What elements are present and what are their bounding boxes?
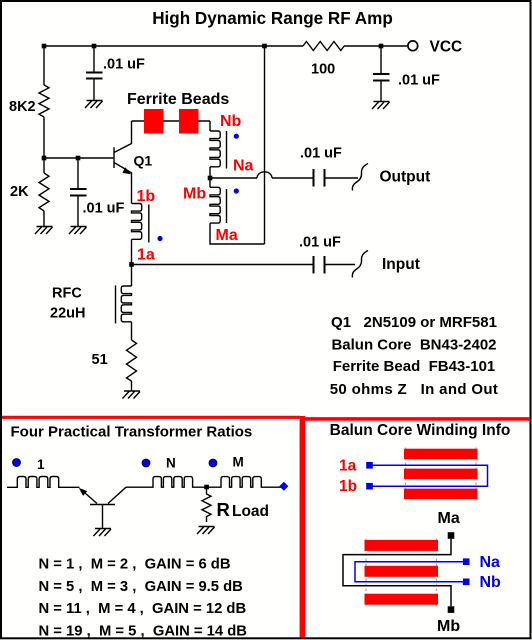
capacitor input plates	[314, 256, 325, 274]
svg-text:8K2: 8K2	[9, 99, 36, 115]
port dot N	[142, 459, 150, 467]
bottom core bar 3	[365, 594, 439, 605]
red panel top border left	[2, 416, 300, 419]
svg-text:100: 100	[311, 62, 335, 78]
svg-text:2K: 2K	[10, 184, 29, 200]
svg-text:.01 uF: .01 uF	[103, 57, 145, 73]
winding Mb/Ma coil	[209, 178, 211, 187]
svg-text:Nb: Nb	[480, 574, 502, 591]
ferrite bead 2	[179, 109, 199, 134]
winding M core bar	[226, 189, 228, 223]
wire input node to RFC	[131, 265, 133, 287]
bottom core bar 2	[365, 566, 439, 577]
wire winding M bottom	[210, 223, 265, 244]
svg-text:Mb: Mb	[437, 618, 460, 635]
inductor RFC coil	[121, 286, 131, 322]
svg-text:Q1 2N5109 or MRF581: Q1 2N5109 or MRF581	[331, 314, 497, 331]
wire input line	[132, 264, 313, 266]
phasing dot M	[234, 188, 239, 193]
svg-text:Balun Core BN43-2402: Balun Core BN43-2402	[331, 337, 496, 354]
svg-text:Balun Core Winding Info: Balun Core Winding Info	[330, 422, 511, 439]
transistor Q emitter wire	[81, 490, 97, 504]
svg-text:VCC: VCC	[430, 39, 463, 56]
node junction C2 top	[76, 156, 81, 161]
phasing dot N	[234, 134, 239, 139]
wire output right	[272, 177, 313, 179]
svg-text:Q1: Q1	[134, 153, 153, 169]
VCC terminal	[408, 41, 418, 51]
ground under C2	[69, 227, 87, 235]
red panel divider	[300, 416, 306, 638]
ground under R load	[197, 527, 215, 535]
terminal square 1b	[366, 483, 373, 490]
red panel top border right	[300, 417, 530, 421]
output jack	[352, 164, 368, 191]
wire top supply rail	[44, 45, 407, 47]
capacitor C3 .01uF lead	[380, 46, 382, 102]
svg-text:.01 uF: .01 uF	[299, 235, 341, 251]
ground under 2K	[35, 227, 53, 235]
node junction top-left	[42, 44, 47, 49]
top core bar 3	[404, 489, 478, 500]
transistor Q1 collector	[114, 121, 132, 153]
svg-text:.01 uF: .01 uF	[83, 201, 125, 217]
svg-text:51: 51	[92, 352, 108, 368]
transistor Q emitter arrow	[79, 488, 88, 496]
terminal square 1a	[366, 462, 373, 469]
RFC core bar	[115, 286, 117, 324]
svg-text:Four Practical Transformer Rat: Four Practical Transformer Ratios	[11, 424, 253, 441]
capacitor C1 plates	[86, 73, 103, 79]
svg-text:Na: Na	[233, 158, 254, 175]
svg-text:Ma: Ma	[438, 510, 460, 527]
svg-text:.01 uF: .01 uF	[300, 146, 342, 162]
svg-text:50 ohms Z In and Out: 50 ohms Z In and Out	[330, 381, 499, 398]
wire input cap to jack	[326, 264, 356, 266]
wire 2K to ground	[43, 211, 45, 227]
svg-text:Ferrite Bead FB43-101: Ferrite Bead FB43-101	[333, 358, 496, 375]
wire bead to winding N top	[209, 121, 211, 131]
svg-text:R: R	[217, 499, 230, 520]
inductor 1 coil	[7, 477, 80, 488]
node junction C3 top	[379, 44, 384, 49]
resistor 2K	[39, 173, 49, 211]
svg-text:N = 19 , M = 5 , GAIN = 14 d: N = 19 , M = 5 , GAIN = 14 dB	[39, 623, 248, 639]
terminal square Nb	[463, 579, 470, 586]
phasing dot 1	[157, 236, 162, 241]
port dot 1	[13, 459, 21, 467]
wire winding 1 loop	[372, 465, 488, 486]
svg-text:N: N	[166, 456, 176, 471]
ground under base	[94, 529, 112, 537]
node junction balun feed	[262, 44, 267, 49]
wire balun feed vertical	[264, 46, 266, 244]
capacitor C3 plates	[373, 74, 390, 81]
wire output left	[210, 177, 257, 179]
output diamond terminal	[279, 482, 288, 491]
wire base	[44, 157, 113, 159]
node junction input	[129, 262, 134, 267]
svg-text:22uH: 22uH	[50, 306, 85, 322]
node junction N-M	[204, 485, 209, 490]
svg-text:Mb: Mb	[183, 186, 206, 203]
node junction balun center	[208, 176, 213, 181]
svg-text:1a: 1a	[339, 458, 357, 475]
ferrite bead 1	[144, 109, 164, 134]
port dot M	[209, 459, 217, 467]
wire winding 1 bottom to input node	[131, 239, 133, 264]
inductor M coil	[207, 477, 282, 488]
wire winding N loop	[355, 562, 463, 582]
svg-text:Na: Na	[480, 554, 501, 571]
resistor 51	[127, 340, 137, 381]
ground under C1	[85, 101, 103, 109]
capacitor C2 .01uF lead	[77, 158, 79, 227]
wire 51 to ground	[131, 381, 133, 391]
wire hop over feed	[257, 172, 272, 178]
bottom core bar 1	[365, 540, 439, 551]
svg-text:High Dynamic Range RF Amp: High Dynamic Range RF Amp	[152, 9, 393, 28]
capacitor C1 .01uF lead	[93, 46, 95, 101]
bottom core dashed edges	[366, 539, 437, 607]
svg-text:Output: Output	[380, 169, 431, 186]
svg-text:Ma: Ma	[216, 227, 238, 244]
svg-text:.01 uF: .01 uF	[398, 73, 440, 89]
svg-text:Input: Input	[382, 256, 420, 273]
svg-text:M: M	[233, 455, 244, 470]
terminal square Mb	[448, 606, 455, 613]
svg-text:1b: 1b	[137, 188, 156, 205]
terminal square Ma	[448, 532, 455, 539]
transistor Q1 emitter arrow	[122, 167, 131, 174]
wire output cap to jack	[326, 177, 359, 179]
svg-text:N = 1 , M = 2 , GAIN = 6 dB: N = 1 , M = 2 , GAIN = 6 dB	[39, 557, 231, 573]
capacitor C2 plates	[70, 189, 87, 196]
top core dashed edges	[406, 448, 477, 501]
wire left column mid	[43, 117, 45, 173]
resistor R load	[202, 487, 211, 522]
transistor Q base lead	[102, 505, 104, 529]
input jack	[352, 251, 368, 278]
resistor 100	[303, 42, 344, 51]
svg-text:1a: 1a	[137, 247, 155, 264]
transistor Q1 emitter	[114, 163, 132, 204]
winding 1b/1a coil	[132, 204, 142, 240]
svg-text:Ferrite Beads: Ferrite Beads	[127, 91, 229, 108]
svg-text:1: 1	[37, 457, 45, 472]
inductor N coil	[126, 477, 207, 488]
capacitor output plates	[314, 169, 325, 187]
terminal square Na	[463, 558, 470, 565]
resistor 8K2	[39, 85, 49, 117]
svg-text:N = 11 , M = 4 , GAIN = 12 d: N = 11 , M = 4 , GAIN = 12 dB	[39, 601, 247, 617]
ground under 51	[123, 391, 141, 399]
top core bar 1	[404, 449, 478, 460]
winding Nb/Na coil	[210, 131, 220, 167]
wire collector to beads	[132, 120, 211, 122]
node junction base	[42, 156, 47, 161]
winding N core bar	[226, 131, 228, 169]
winding 1 core bar	[148, 205, 150, 243]
wire RFC to resistor 51	[131, 322, 133, 340]
svg-text:1b: 1b	[339, 478, 357, 495]
top core bar 2	[404, 469, 478, 480]
transistor Q base bar	[90, 504, 115, 506]
transistor Q collector	[108, 487, 126, 503]
svg-text:N = 5 , M = 3 , GAIN = 9.5 d: N = 5 , M = 3 , GAIN = 9.5 dB	[39, 579, 244, 595]
svg-text:RFC: RFC	[52, 286, 82, 302]
wire left column upper	[43, 46, 45, 85]
transistor Q1 base bar	[113, 147, 115, 168]
ground under C3	[372, 102, 390, 110]
svg-text:Load: Load	[232, 503, 269, 520]
wire winding N bottom to junction	[209, 167, 211, 178]
svg-text:Nb: Nb	[220, 113, 242, 130]
wire winding M loop	[343, 539, 451, 607]
node junction C1 top	[92, 44, 97, 49]
